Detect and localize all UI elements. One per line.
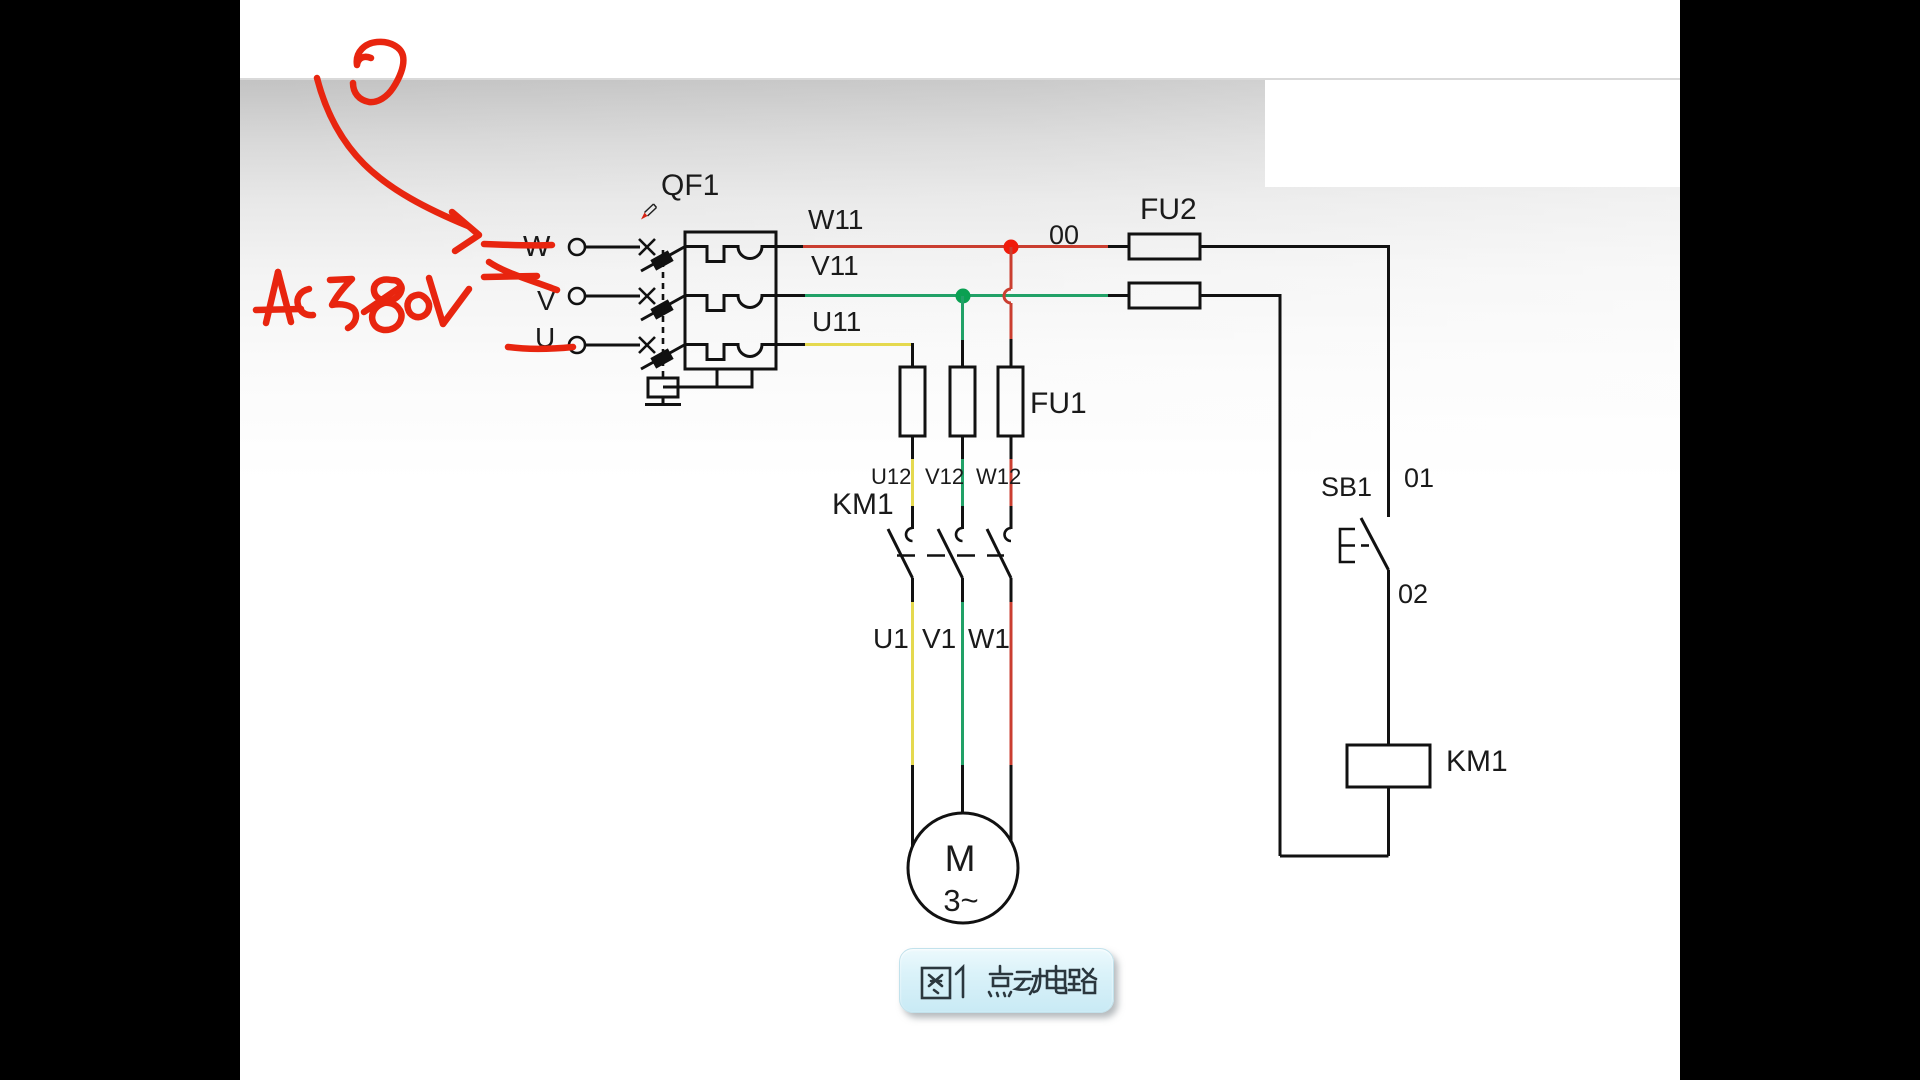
red text 8 slash (364, 288, 399, 312)
svg-text:FU1: FU1 (1030, 387, 1087, 420)
wire U1 to motor black (911, 765, 914, 846)
svg-text:KM1: KM1 (1446, 745, 1508, 778)
svg-text:U12: U12 (871, 464, 911, 489)
trip element pole U (652, 350, 671, 366)
breaker QF1 blade pole U (641, 344, 686, 369)
svg-text:W1: W1 (968, 623, 1010, 654)
red text A crossbar (256, 309, 301, 310)
trip element pole W (652, 252, 671, 268)
red arrow curve (317, 78, 468, 226)
fuse FU2 lower (1129, 283, 1200, 308)
wire U1 yellow (911, 602, 914, 766)
wire to KM1 contact V black (961, 506, 964, 529)
QF1 box (685, 232, 776, 369)
wire green vertical (961, 296, 964, 341)
contactor coil KM1 (1347, 745, 1430, 787)
X mark pole U (639, 337, 655, 353)
wire below FU1 V black (961, 436, 964, 460)
svg-text:U1: U1 (873, 623, 909, 654)
wire below FU1 V green (961, 459, 964, 507)
wire U lead (585, 344, 640, 347)
KM1 contacts dashed link (897, 554, 1004, 557)
pushbutton SB1 actuator E (1340, 529, 1355, 562)
QF1 release stem (662, 397, 665, 403)
wire red hop over green (1004, 289, 1011, 303)
svg-text:02: 02 (1398, 579, 1428, 609)
wire red to FU1 black (1010, 339, 1013, 367)
wire below FU1 W red (1010, 459, 1013, 507)
KM1 contact W blade (987, 529, 1011, 578)
svg-text:KM1: KM1 (832, 488, 894, 521)
red text 0 (407, 295, 429, 317)
fuse FU2 upper (1129, 234, 1200, 259)
glyph 图 (922, 968, 950, 998)
X mark pole V (639, 288, 655, 304)
KM1 contact V fixed hook (956, 528, 962, 541)
wire U11 yellow (805, 343, 911, 346)
wire W lead (585, 246, 640, 249)
white overlay box top right (1265, 80, 1680, 187)
wire FU2 lower to corner (1200, 296, 1280, 857)
QF1 pole W thermal-magnetic path (685, 247, 776, 262)
pencil cursor icon (645, 204, 657, 216)
wire to KM1 contact W black (1010, 506, 1013, 529)
QF1 release bar (645, 403, 681, 406)
svg-text:00: 00 (1049, 220, 1079, 250)
red text C (297, 289, 313, 315)
fuse FU1 pole W (998, 367, 1023, 436)
svg-text:QF1: QF1 (661, 169, 719, 202)
breaker QF1 blade pole V (641, 295, 686, 320)
red annotation strokes (256, 42, 573, 349)
wire red vertical lower (1010, 303, 1013, 340)
terminal W circle (569, 239, 585, 255)
wire V1 green (961, 602, 964, 766)
wire red vertical upper (1010, 247, 1013, 289)
svg-text:W11: W11 (808, 204, 864, 235)
node V green dot (956, 289, 971, 304)
X mark pole W (639, 239, 655, 255)
wire SB1 to coil (1387, 570, 1390, 745)
wire W1 red (1010, 602, 1013, 766)
red slash toward V curved (489, 262, 557, 290)
QF1 release box (648, 378, 678, 397)
svg-text:01: 01 (1404, 463, 1434, 493)
wire bottom return (1280, 855, 1389, 858)
red text 3 (330, 279, 356, 328)
red loop (353, 42, 403, 102)
title text 图1 点动电路 as strokes (922, 966, 1096, 998)
wire coil to bottom (1387, 787, 1390, 856)
KM1 contact W fixed hook (1005, 528, 1011, 541)
wire W11 to FU2 black (1108, 245, 1129, 248)
red text A stroke1 (266, 272, 278, 323)
wire below FU1 U yellow (911, 459, 914, 507)
svg-text:V12: V12 (925, 464, 964, 489)
QF1 pole V thermal-magnetic path (685, 296, 776, 311)
wire below FU1 W black (1010, 436, 1013, 460)
wire pole W exit black (776, 245, 804, 248)
pencil cursor red tip (641, 213, 648, 220)
wire KM1 to U1 black (911, 578, 914, 603)
wire V11 green (805, 294, 1109, 297)
glyph 路 (1069, 969, 1096, 993)
red arrowhead (452, 212, 479, 251)
svg-text:3~: 3~ (943, 883, 978, 918)
wire pole U exit black (776, 343, 806, 346)
wire KM1 to V1 black (961, 578, 964, 603)
breaker QF1 blade pole W (641, 246, 686, 271)
fuse FU1 pole V (950, 367, 975, 436)
KM1 contact U fixed hook (906, 528, 913, 541)
wire V lead (585, 295, 640, 298)
svg-text:V11: V11 (811, 250, 859, 281)
glyph 动 (1015, 969, 1045, 994)
QF1 bottom small rect (717, 369, 752, 387)
red text V (429, 278, 469, 324)
wire W11 red (803, 245, 1109, 248)
wire green to FU1 black (961, 340, 964, 367)
wire V11 to FU2 black (1108, 294, 1129, 297)
pushbutton SB1 blade (1361, 518, 1389, 570)
QF1 release link wire (663, 386, 717, 389)
top hairline (240, 78, 1680, 80)
glyph 点 (989, 966, 1012, 996)
svg-text:FU2: FU2 (1140, 193, 1197, 226)
wire FU2 upper to corner (1200, 247, 1389, 518)
red slash over W (484, 244, 552, 245)
terminal V circle (569, 288, 585, 304)
svg-text:SB1: SB1 (1321, 472, 1372, 502)
red text A stroke2 (278, 272, 291, 322)
pushbutton SB1 actuator dash (1361, 544, 1369, 547)
trip element pole V (652, 301, 671, 317)
motor M circle (908, 813, 1018, 923)
QF1 mechanical link dashed (662, 250, 665, 378)
wire W1 to motor black (1010, 765, 1013, 842)
red text 8 bottom loop (372, 303, 401, 330)
KM1 contact V blade (938, 529, 963, 578)
wire to KM1 contact U black (911, 506, 914, 529)
fuse FU1 pole U (900, 367, 925, 436)
red underline U (508, 347, 573, 349)
slide background with gradient band (240, 0, 1680, 1080)
wire U11 corner down (911, 345, 913, 368)
node 00 red dot (1004, 240, 1019, 255)
red slash toward V straight (484, 276, 537, 277)
svg-text:M: M (945, 838, 976, 879)
wire V1 to motor black (961, 765, 964, 813)
QF1 pole U thermal-magnetic path (685, 345, 776, 360)
svg-text:W12: W12 (976, 464, 1021, 489)
svg-text:V1: V1 (922, 623, 956, 654)
title caption box (899, 948, 1114, 1013)
wire pole V exit black (776, 294, 806, 297)
glyph 电 (1047, 966, 1066, 993)
KM1 contact U blade (888, 529, 913, 578)
red text 8 top loop (374, 280, 402, 301)
glyph 1 (956, 967, 963, 997)
svg-text:U11: U11 (812, 306, 861, 337)
wire below FU1 U black (911, 436, 914, 460)
terminal U circle (569, 337, 585, 353)
wire KM1 to W1 black (1010, 578, 1013, 603)
